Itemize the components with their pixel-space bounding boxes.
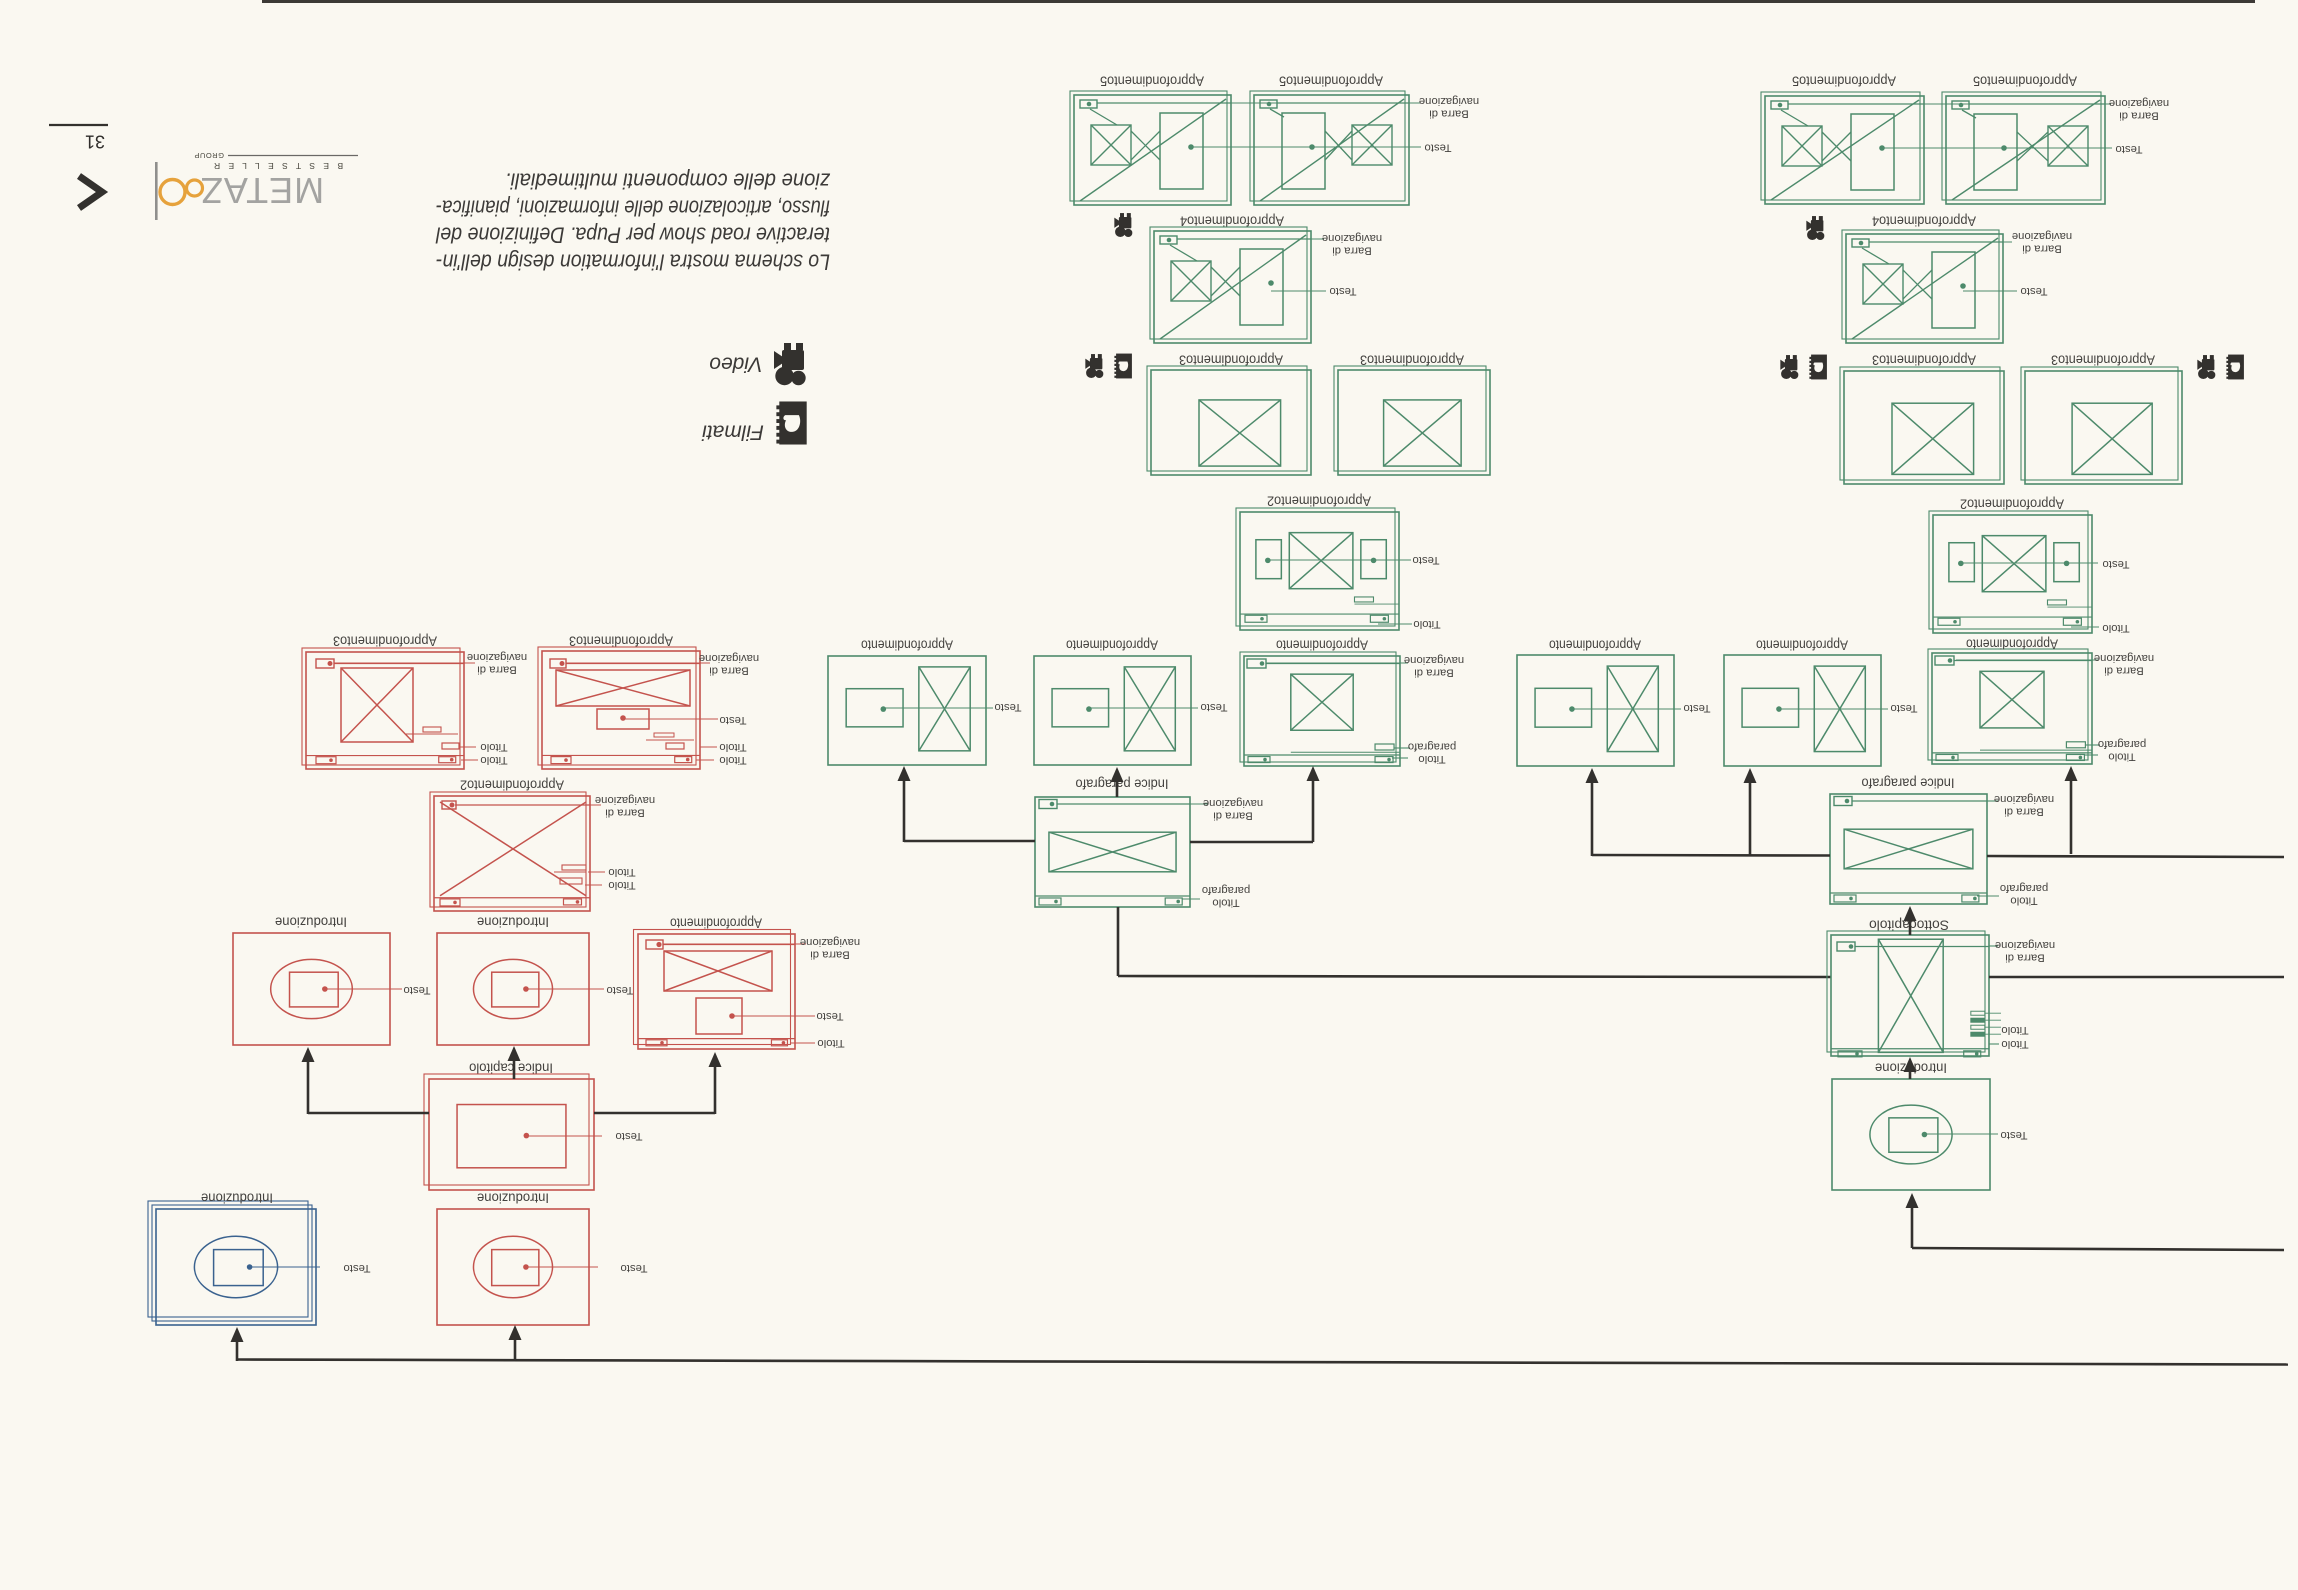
label Barra di navigazione R3b: [699, 652, 759, 677]
label Titolo A2: [1413, 618, 1440, 630]
svg-text:Titolo: Titolo: [1413, 618, 1440, 630]
label Testo R3b: [719, 714, 746, 726]
svg-text:Titolo: Titolo: [2102, 622, 2129, 634]
icon video r-A4: [1806, 216, 1824, 240]
arrow into Intro r: [1906, 1193, 1919, 1208]
svg-text:Approfondimento2: Approfondimento2: [460, 778, 564, 793]
chevron arrow: [79, 176, 102, 208]
wire BIntro to Sotto: [1909, 1061, 1912, 1079]
leader testo B4: [1963, 290, 2017, 292]
icon film r-A3-right: [2226, 355, 2244, 380]
title Introduzione red-2: [477, 915, 549, 930]
label Titolo R3b-2: [719, 754, 746, 766]
svg-text:navigazione: navigazione: [2109, 97, 2169, 109]
leader titolo BIP: [1977, 895, 1999, 897]
svg-text:paragrafo: paragrafo: [2098, 738, 2146, 750]
leader testo Intro r: [1925, 1133, 1998, 1135]
label Titolo R3a-2: [480, 754, 507, 766]
title Introduzione r: [1875, 1061, 1947, 1076]
box Approfondimento r-simple1: [1517, 655, 1674, 766]
wire riser r-nav: [2070, 770, 2073, 854]
svg-text:Approfondimento4: Approfondimento4: [1180, 214, 1284, 229]
leader nav R3b: [566, 662, 710, 664]
arrow into m-simple1: [898, 766, 911, 781]
leader nav RA: [663, 943, 806, 945]
svg-text:Testo: Testo: [1890, 702, 1917, 714]
svg-text:paragrafo: paragrafo: [2000, 882, 2048, 894]
svg-text:31: 31: [85, 132, 105, 152]
legend icon video: [774, 343, 806, 385]
leader nav m-nav: [1266, 662, 1408, 664]
arrow into RI2: [508, 1046, 521, 1061]
arrow into r-simple2: [1744, 768, 1757, 783]
svg-text:zione delle componenti multime: zione delle componenti multimediali.: [505, 169, 831, 194]
box Introduzione r: [1832, 1079, 1990, 1190]
box Introduzione blue: [148, 1201, 316, 1325]
svg-text:Titolo: Titolo: [480, 741, 507, 753]
leader testo m-simple2: [1089, 707, 1198, 709]
wire bottom trunk: [237, 1360, 2288, 1365]
svg-text:Approfondimento3: Approfondimento3: [1360, 353, 1464, 368]
svg-text:Introduzione: Introduzione: [477, 915, 549, 930]
box Approfondimento5 m-right: [1250, 91, 1409, 205]
svg-text:paragrafo: paragrafo: [1202, 884, 1250, 896]
svg-text:Testo: Testo: [1424, 142, 1451, 154]
svg-text:Video: Video: [709, 353, 763, 376]
svg-text:paragrafo: paragrafo: [1408, 740, 1456, 752]
leader titolo R3b-1: [700, 746, 717, 748]
svg-text:Titolo: Titolo: [1418, 753, 1445, 765]
wire IC left arm: [308, 1051, 429, 1114]
label Titolo paragrafo r-nav: [2098, 738, 2146, 763]
svg-text:Barra di: Barra di: [477, 663, 517, 675]
leader nav B5 pair: [1789, 103, 2111, 105]
label Testo RI2: [606, 984, 633, 996]
svg-text:Titolo: Titolo: [2001, 1038, 2028, 1050]
label Testo A4: [1329, 285, 1356, 297]
page number 31 underline: [49, 124, 108, 126]
svg-text:Barra di: Barra di: [2004, 805, 2044, 817]
title Introduzione red-3: [477, 1191, 549, 1206]
label Barra di navigazione B5: [2109, 97, 2169, 122]
arrow into RI1: [302, 1047, 315, 1062]
label Barra di navigazione BIP: [1994, 793, 2054, 818]
svg-text:Testo: Testo: [403, 984, 430, 996]
title Approfondimento2 red: [460, 778, 564, 793]
wire BIntro bottom riser: [1912, 1197, 2284, 1250]
wire IP-m left arm: [904, 770, 1035, 842]
svg-text:Titolo: Titolo: [608, 866, 635, 878]
svg-text:navigazione: navigazione: [1994, 793, 2054, 805]
box Introduzione red-1: [233, 933, 390, 1045]
svg-text:Titolo: Titolo: [608, 879, 635, 891]
svg-text:navigazione: navigazione: [2094, 652, 2154, 664]
label Titolo Sotto 2: [2001, 1038, 2028, 1050]
icon video m-A4: [1114, 213, 1132, 237]
leader titolo Sotto: [1989, 1043, 1999, 1045]
svg-text:Approfondimento: Approfondimento: [1276, 638, 1368, 653]
title Approfondimento r-simple2: [1756, 638, 1848, 653]
svg-text:Testo: Testo: [606, 984, 633, 996]
box Approfondimento5 m-left: [1070, 91, 1231, 205]
svg-text:navigazione: navigazione: [595, 794, 655, 806]
arrow into r-nav: [2065, 766, 2078, 781]
label Barra di navigazione m-nav: [1404, 654, 1464, 679]
box Indice paragrafo m: [1035, 797, 1190, 907]
leader titolo-paragrafo m-nav: [1392, 748, 1410, 758]
label Testo r-simple2: [1890, 702, 1917, 714]
svg-text:Approfondimento5: Approfondimento5: [1973, 74, 2077, 89]
box Introduzione red-2: [437, 933, 589, 1045]
svg-text:navigazione: navigazione: [2012, 230, 2072, 242]
title Approfondimento5 r-left: [1792, 74, 1896, 89]
svg-text:GROUP: GROUP: [194, 151, 224, 160]
svg-text:Barra di: Barra di: [605, 806, 645, 818]
title Approfondimento3 red-img: [333, 634, 437, 649]
svg-text:Titolo: Titolo: [2010, 894, 2037, 906]
wire IP-m bottom trunk: [1118, 907, 1831, 977]
leader titolo R3a-2: [461, 759, 478, 761]
title Approfondimento2 r: [1960, 497, 2064, 512]
box Approfondimento5 r-left: [1761, 92, 1924, 204]
leader nav r-nav: [1956, 659, 2098, 661]
label Titolo paragrafo m-nav: [1408, 740, 1456, 765]
box Approfondimento3 m-left: [1147, 366, 1311, 475]
svg-text:navigazione: navigazione: [1419, 95, 1479, 107]
box Approfondimento3 r-left: [1840, 367, 2004, 484]
leader titolo IP m: [1182, 898, 1200, 900]
wire IC top arm: [513, 1050, 516, 1079]
svg-text:Testo: Testo: [2102, 558, 2129, 570]
svg-text:Testo: Testo: [816, 1010, 843, 1022]
leader testo R3b: [623, 718, 718, 720]
leader nav A5 pair: [1097, 102, 1420, 104]
svg-text:Testo: Testo: [719, 714, 746, 726]
leader testo m-simple1: [883, 707, 993, 709]
title Approfondimento4 m: [1180, 214, 1284, 229]
label Barra di navigazione B4: [2012, 230, 2072, 255]
title Approfondimento m-simple1: [861, 638, 953, 653]
icon video m-A3: [1085, 354, 1103, 378]
leader testo IC: [526, 1135, 602, 1137]
label Testo A2: [1412, 554, 1439, 566]
leader nav BIP: [1987, 800, 1998, 802]
leader nav R3a: [334, 662, 475, 664]
box Approfondimento4 m: [1150, 227, 1311, 343]
svg-text:Testo: Testo: [1200, 701, 1227, 713]
svg-text:navigazione: navigazione: [467, 651, 527, 663]
svg-text:Introduzione: Introduzione: [477, 1191, 549, 1206]
label Testo Intro r: [2000, 1129, 2027, 1141]
label Testo RI1: [403, 984, 430, 996]
box Indice capitolo: [424, 1074, 594, 1190]
leader testo A4: [1271, 290, 1326, 292]
arrow into blue intro: [231, 1327, 244, 1342]
svg-text:Testo: Testo: [2115, 143, 2142, 155]
box Approfondimento5 r-right: [1942, 92, 2105, 204]
title Indice paragrafo m: [1075, 777, 1168, 792]
svg-text:Approfondimento5: Approfondimento5: [1279, 74, 1383, 89]
leader testo blue: [250, 1266, 320, 1268]
title Approfondimento r-simple1: [1549, 638, 1641, 653]
svg-text:Testo: Testo: [1329, 285, 1356, 297]
wire IP-m right arm: [1190, 770, 1313, 842]
svg-text:Barra di: Barra di: [2119, 109, 2159, 121]
arrow into RA: [709, 1052, 722, 1067]
svg-text:Approfondimento4: Approfondimento4: [1872, 214, 1976, 229]
legend label Video: [709, 353, 763, 376]
wire riser blue: [236, 1331, 239, 1361]
label Testo IC: [615, 1130, 642, 1142]
title Approfondimento2 m: [1267, 494, 1371, 509]
icon video r-A3-left: [1780, 355, 1798, 379]
svg-text:Lo schema mostra l'information: Lo schema mostra l'information design de…: [436, 250, 830, 275]
leader titolo B2: [2071, 626, 2099, 628]
arrow into m-nav: [1307, 766, 1320, 781]
leader testo B2: [1961, 562, 2098, 564]
svg-text:Approfondimento3: Approfondimento3: [1179, 353, 1283, 368]
wire riser red intro3: [514, 1329, 517, 1361]
svg-text:Titolo: Titolo: [2108, 750, 2135, 762]
box Indice paragrafo r: [1830, 794, 1987, 904]
label Testo RA: [816, 1010, 843, 1022]
label Testo m-simple1: [994, 701, 1021, 713]
label Barra di navigazione Sotto: [1995, 939, 2055, 964]
leader titolo-paragrafo r-nav: [2084, 745, 2100, 755]
leader testo RI3: [526, 1266, 598, 1268]
label Barra di navigazione r-nav: [2094, 652, 2154, 677]
label Titolo RA: [817, 1037, 844, 1049]
leader testo RI2: [526, 988, 604, 990]
METAZoo logo: [155, 151, 358, 220]
caption paragraph: [435, 169, 831, 275]
icon video r-A3-right: [2197, 355, 2215, 379]
box Approfondimento2 m: [1236, 508, 1399, 630]
title Approfondimento m-simple2: [1066, 638, 1158, 653]
legend icon filmati: [776, 401, 806, 444]
svg-text:Approfondimento3: Approfondimento3: [333, 634, 437, 649]
label Testo A5: [1424, 142, 1451, 154]
svg-text:navigazione: navigazione: [1322, 232, 1382, 244]
svg-text:Barra di: Barra di: [1332, 244, 1372, 256]
svg-text:Barra di: Barra di: [1213, 809, 1253, 821]
svg-text:Barra di: Barra di: [1414, 666, 1454, 678]
svg-text:Titolo: Titolo: [480, 754, 507, 766]
svg-text:Barra di: Barra di: [2104, 664, 2144, 676]
svg-text:Approfondimento: Approfondimento: [1066, 638, 1158, 653]
page top scan edge: [262, 0, 2255, 3]
svg-text:flusso, articolazione delle in: flusso, articolazione delle informazioni…: [436, 196, 830, 221]
title Approfondimento3 r-right: [2051, 353, 2155, 368]
box Approfondimento red-nav: [634, 930, 796, 1050]
svg-text:Testo: Testo: [615, 1130, 642, 1142]
leader nav IP m: [1190, 803, 1208, 805]
svg-text:navigazione: navigazione: [1995, 939, 2055, 951]
label Testo RI3: [620, 1262, 647, 1274]
leader titolo A2: [1378, 623, 1412, 625]
title Approfondimento3 red-banner: [569, 634, 673, 649]
svg-text:navigazione: navigazione: [1404, 654, 1464, 666]
svg-text:Testo: Testo: [620, 1262, 647, 1274]
wire riser r-simple1: [1591, 772, 1594, 856]
label Barra di navigazione R2: [595, 794, 655, 819]
title Approfondimento3 m-left: [1179, 353, 1283, 368]
legend label Filmati: [701, 421, 764, 444]
box Approfondimento3 m-right: [1334, 366, 1490, 475]
wire Sotto to BIP: [1909, 910, 1912, 935]
svg-text:Approfondimento3: Approfondimento3: [2051, 353, 2155, 368]
label Titolo paragrafo IP m: [1202, 884, 1250, 909]
svg-text:Approfondimento2: Approfondimento2: [1960, 497, 2064, 512]
svg-text:Introduzione: Introduzione: [201, 1191, 273, 1206]
label Barra di navigazione A5: [1419, 95, 1479, 120]
label Barra di navigazione R3a: [467, 651, 527, 676]
svg-text:Indice capitolo: Indice capitolo: [469, 1061, 553, 1076]
svg-text:Barra di: Barra di: [2005, 951, 2045, 963]
svg-text:Testo: Testo: [994, 701, 1021, 713]
svg-text:Testo: Testo: [1412, 554, 1439, 566]
leader testo A2: [1268, 559, 1411, 561]
wire riser r-simple2: [1749, 772, 1752, 856]
box Approfondimento4 r: [1842, 230, 2003, 343]
svg-text:Barra di: Barra di: [810, 948, 850, 960]
label Titolo B2: [2102, 622, 2129, 634]
label Titolo R3a-1: [480, 741, 507, 753]
svg-text:Approfondimento: Approfondimento: [1756, 638, 1848, 653]
box Approfondimento m-nav: [1240, 652, 1400, 766]
svg-text:Approfondimento5: Approfondimento5: [1792, 74, 1896, 89]
svg-text:Approfondimento: Approfondimento: [1549, 638, 1641, 653]
title Approfondimento5 r-right: [1973, 74, 2077, 89]
title Approfondimento red-nav: [670, 916, 762, 931]
title Approfondimento5 m-right: [1279, 74, 1383, 89]
leader testo r-simple2: [1779, 708, 1888, 710]
arrow into red intro3: [509, 1325, 522, 1340]
arrow into BIP: [1904, 906, 1917, 921]
leader testo RI1: [325, 988, 402, 990]
svg-text:Barra di: Barra di: [1429, 107, 1469, 119]
svg-text:Approfondimento3: Approfondimento3: [1872, 353, 1976, 368]
box Approfondimento r-nav: [1928, 649, 2092, 764]
svg-text:teractive road show per Pupa.: teractive road show per Pupa. Definizion…: [435, 223, 830, 248]
leader titolo R3a-1: [459, 746, 476, 748]
svg-text:Approfondimento3: Approfondimento3: [569, 634, 673, 649]
title Approfondimento3 r-left: [1872, 353, 1976, 368]
leader testo r-simple1: [1572, 708, 1681, 710]
label Testo B2: [2102, 558, 2129, 570]
label Testo blue: [343, 1262, 370, 1274]
svg-text:Introduzione: Introduzione: [275, 915, 347, 930]
box Approfondimento2 red: [430, 792, 590, 911]
title Introduzione blue: [201, 1191, 273, 1206]
title Approfondimento m-nav: [1276, 638, 1368, 653]
box Introduzione red-3: [437, 1209, 589, 1325]
title Approfondimento4 r: [1872, 214, 1976, 229]
label Barra di navigazione RA: [800, 936, 860, 961]
leader testo RA: [732, 1015, 815, 1017]
svg-text:Testo: Testo: [2020, 285, 2047, 297]
arrow into m-simple2: [1111, 767, 1124, 782]
page number 31: [85, 132, 105, 152]
svg-text:Titolo: Titolo: [719, 754, 746, 766]
label Titolo R2-1: [608, 866, 635, 878]
label Barra di navigazione A4: [1322, 232, 1382, 257]
leader titolo R3b-2: [696, 759, 714, 761]
svg-text:navigazione: navigazione: [699, 652, 759, 664]
label Testo B5: [2115, 143, 2142, 155]
box Approfondimento2 r: [1929, 511, 2092, 633]
title Approfondimento3 m-right: [1360, 353, 1464, 368]
box Approfondimento3 red-banner: [538, 647, 700, 769]
svg-text:Approfondimento: Approfondimento: [861, 638, 953, 653]
label Testo m-simple2: [1200, 701, 1227, 713]
box Approfondimento m-simple2: [1034, 656, 1191, 765]
leader titolo RA: [790, 1042, 815, 1044]
box Approfondimento r-simple2: [1724, 655, 1881, 766]
label Titolo Sotto 1: [2001, 1024, 2028, 1036]
svg-text:B E S T S E L L E R: B E S T S E L L E R: [211, 161, 343, 171]
leader nav R2: [455, 804, 601, 806]
leader titolo R2-2: [585, 884, 602, 886]
wire IP-m top arm: [1116, 772, 1119, 797]
svg-text:Barra di: Barra di: [2022, 242, 2062, 254]
svg-text:Approfondimento2: Approfondimento2: [1267, 494, 1371, 509]
svg-text:Approfondimento: Approfondimento: [1966, 637, 2058, 652]
label Testo r-simple1: [1683, 702, 1710, 714]
svg-text:navigazione: navigazione: [800, 936, 860, 948]
label Testo B4: [2020, 285, 2047, 297]
label Barra di navigazione IP m: [1203, 797, 1263, 822]
leader testo A5 pair: [1191, 146, 1421, 148]
leader nav B4: [1869, 241, 2012, 243]
svg-text:Filmati: Filmati: [701, 421, 764, 444]
svg-text:Barra di: Barra di: [709, 664, 749, 676]
svg-text:Titolo: Titolo: [1212, 896, 1239, 908]
wire trunk y977 right: [1989, 976, 2284, 979]
title Approfondimento r-nav: [1966, 637, 2058, 652]
label Titolo paragrafo BIP: [2000, 882, 2048, 907]
label Titolo R3b-1: [719, 741, 746, 753]
label Titolo R2-2: [608, 879, 635, 891]
title Sottocapitolo: [1869, 918, 1949, 933]
box Approfondimento m-simple1: [828, 656, 986, 765]
arrow into r-simple1: [1586, 768, 1599, 783]
title Indice paragrafo r: [1861, 776, 1954, 791]
svg-text:Testo: Testo: [1683, 702, 1710, 714]
box Approfondimento3 r-right: [2021, 367, 2182, 484]
arrow into Sotto: [1904, 1057, 1917, 1072]
title Introduzione red-1: [275, 915, 347, 930]
title Indice capitolo: [469, 1061, 553, 1076]
svg-text:Titolo: Titolo: [817, 1037, 844, 1049]
svg-text:Indice paragrafo: Indice paragrafo: [1861, 776, 1954, 791]
svg-text:Testo: Testo: [2000, 1129, 2027, 1141]
icon film m-A3: [1114, 354, 1132, 379]
svg-text:navigazione: navigazione: [1203, 797, 1263, 809]
svg-text:Approfondimento5: Approfondimento5: [1100, 74, 1204, 89]
svg-text:Titolo: Titolo: [719, 741, 746, 753]
leader nav Sotto: [1989, 945, 1998, 947]
icon film r-A3-left: [1809, 355, 1827, 380]
leader titolo R2-1: [588, 871, 605, 873]
wire IC right arm: [594, 1056, 715, 1114]
title Approfondimento5 m-left: [1100, 74, 1204, 89]
svg-text:METAZ: METAZ: [200, 170, 324, 211]
leader nav A4: [1177, 238, 1324, 240]
svg-text:Testo: Testo: [343, 1262, 370, 1274]
box Approfondimento3 red-img: [302, 648, 464, 769]
svg-text:Approfondimento: Approfondimento: [670, 916, 762, 931]
